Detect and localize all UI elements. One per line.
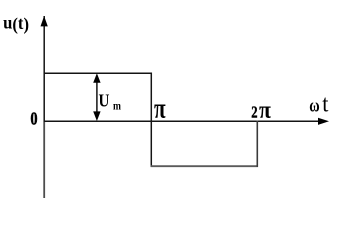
- svg-text:2: 2: [251, 104, 257, 122]
- label 2pi: [251, 96, 271, 124]
- label Um: [99, 90, 122, 112]
- vertical axis arrowhead: [41, 16, 48, 26]
- svg-text:0: 0: [30, 108, 37, 129]
- svg-text:m: m: [113, 101, 121, 113]
- vertical axis u(t): [43, 16, 45, 122]
- waveform rising edge at 2pi: [256, 121, 258, 167]
- svg-text:π: π: [154, 94, 166, 125]
- svg-text:U: U: [99, 90, 110, 110]
- label wt: [309, 90, 329, 117]
- horizontal axis arrowhead: [318, 118, 329, 125]
- svg-text:π: π: [259, 96, 271, 124]
- waveform high segment: [44, 72, 152, 74]
- Um dimension arrow shaft: [96, 76, 98, 119]
- waveform falling edge at pi: [150, 73, 152, 167]
- svg-text:ω: ω: [309, 95, 319, 116]
- Um arrow bottom head: [93, 111, 100, 121]
- waveform low segment: [151, 165, 258, 167]
- Um arrow top head: [93, 73, 100, 83]
- svg-text:t: t: [322, 90, 329, 117]
- horizontal axis wt: [44, 120, 321, 122]
- svg-text:): ): [24, 15, 30, 34]
- svg-text:u: u: [3, 13, 13, 32]
- label u(t): [3, 13, 29, 34]
- vertical axis tail below origin: [43, 122, 45, 198]
